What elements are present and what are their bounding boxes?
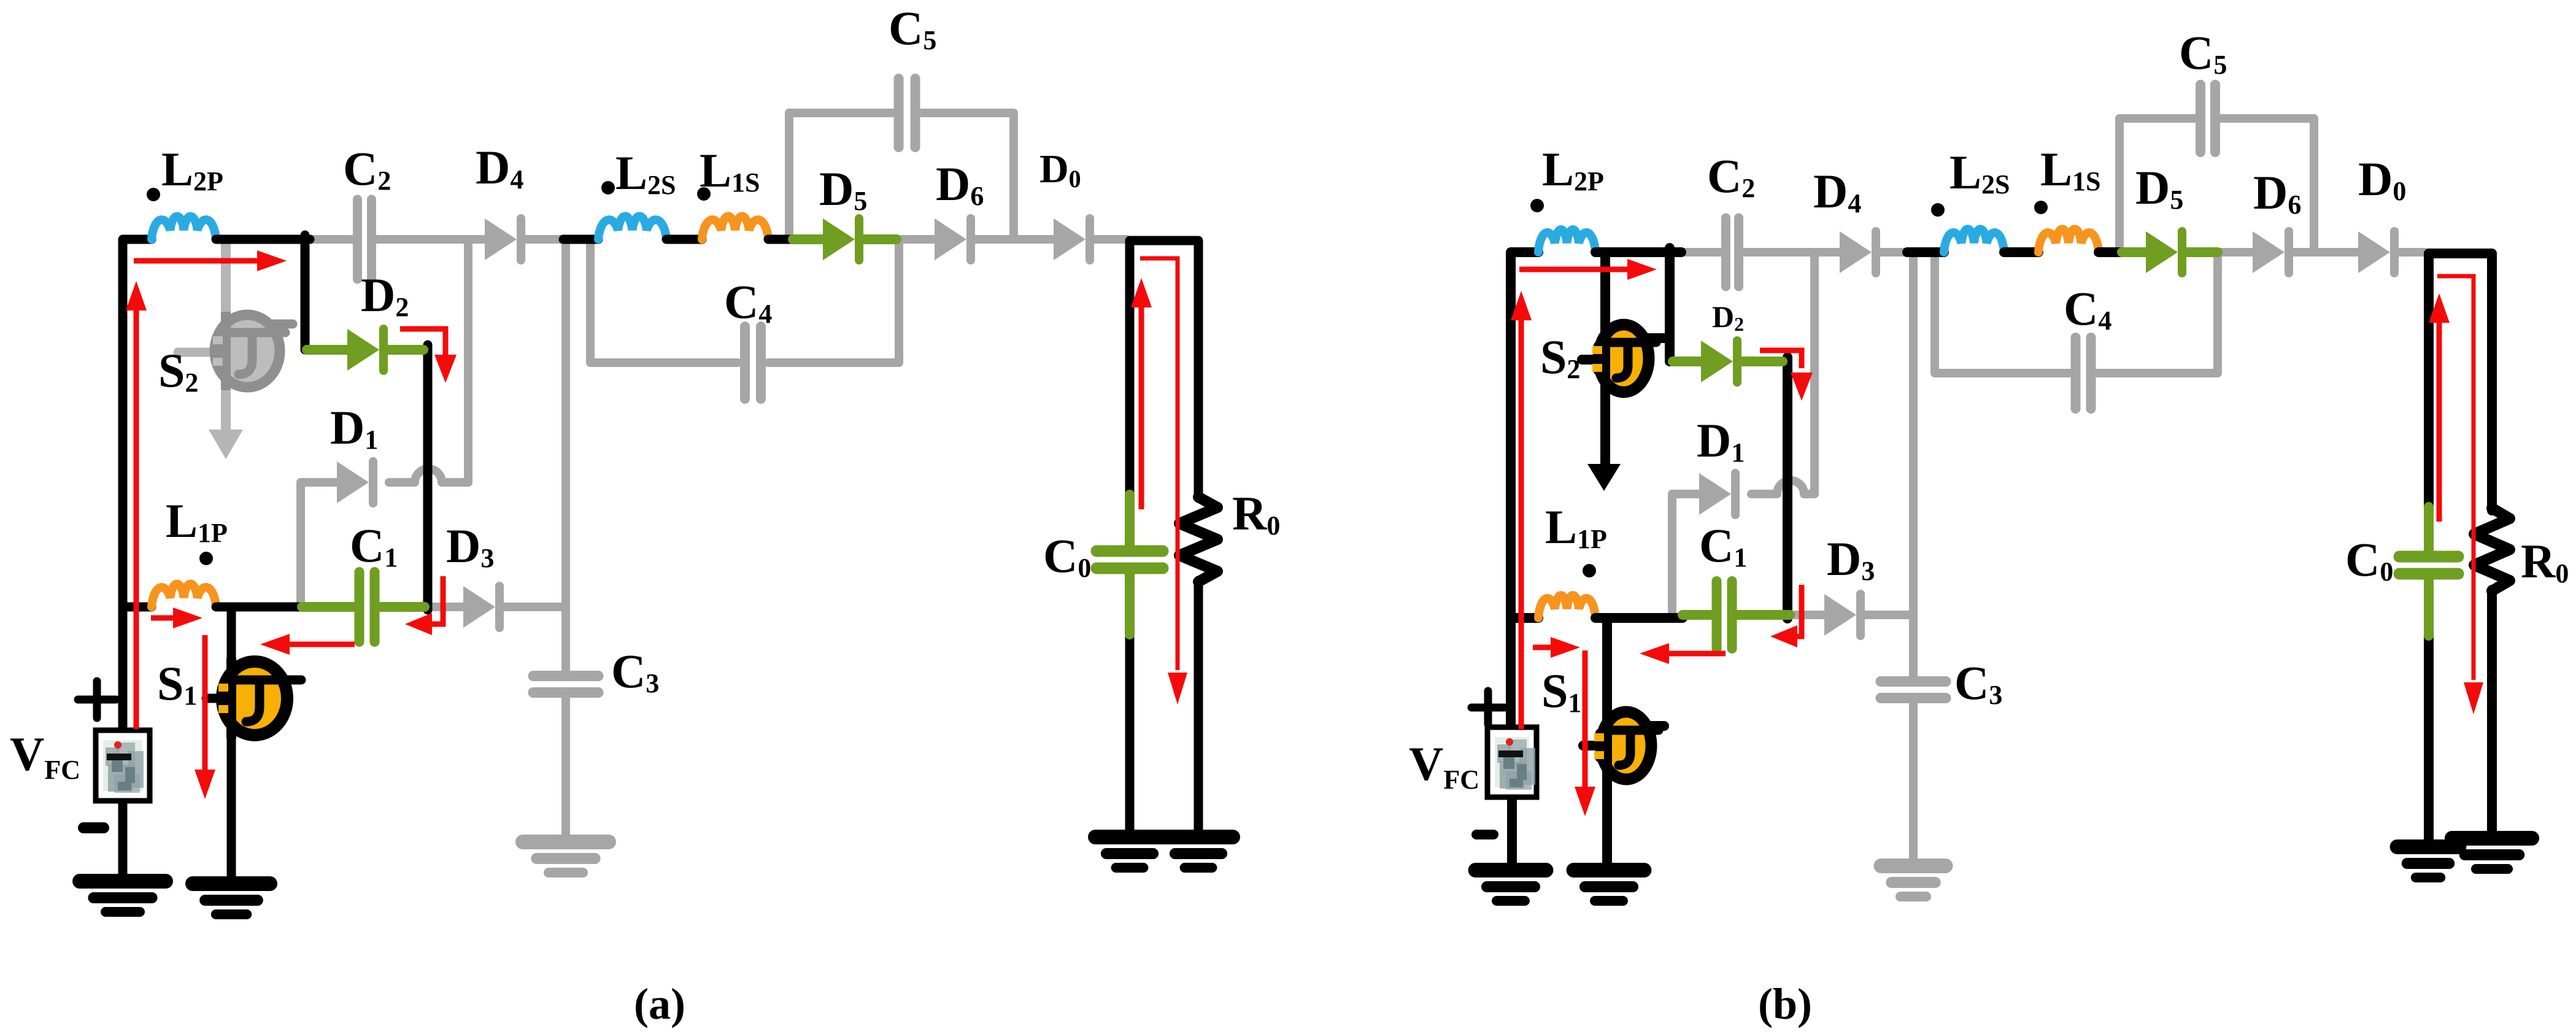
svg-text:L1P: L1P <box>1545 500 1607 554</box>
wire output top bar (b) <box>2429 253 2492 511</box>
diode D3 (b) <box>1824 594 1861 636</box>
wire second row stub (b) <box>1511 613 1538 623</box>
wire bus gray D5-D6 (a) <box>897 235 935 244</box>
inductor L1P (a) <box>152 584 216 607</box>
svg-text:(a): (a) <box>634 979 685 1028</box>
wire C4 loop right (b) <box>2097 256 2218 373</box>
capacitor C4 (b) <box>2076 338 2091 409</box>
wire VFC bottom (a) <box>118 801 128 875</box>
ground C3 (a) <box>523 842 609 873</box>
inductor L2S (a) <box>598 216 666 239</box>
wire C1 row green left (a) <box>302 602 356 612</box>
node dot L2P (a) <box>147 188 160 201</box>
wire D2 cathode green (a) <box>388 345 423 355</box>
diode D2 (a) <box>347 329 384 371</box>
capacitor C1 (a) <box>360 572 375 642</box>
svg-text:C0: C0 <box>2345 533 2393 587</box>
wire D5 cathode green (a) <box>863 234 897 244</box>
svg-text:C3: C3 <box>1954 656 2002 710</box>
wire below C0 (a) <box>1125 632 1135 835</box>
ground VFC (a) <box>80 881 166 912</box>
svg-text:L2S: L2S <box>1949 145 2010 199</box>
capacitor C0 (a) <box>1097 551 1163 568</box>
svg-text:D4: D4 <box>1813 164 1861 218</box>
svg-text:C0: C0 <box>1043 529 1091 583</box>
svg-text:S1: S1 <box>1541 664 1581 718</box>
wire bus black dash D4-L2S (b) <box>1907 247 1944 257</box>
svg-text:L2P: L2P <box>161 142 223 196</box>
minus sign VFC (a) <box>83 822 104 833</box>
wire C5 loop left (a) <box>789 113 892 239</box>
ground output R0 (a) <box>1164 837 1233 868</box>
wire D2 anode green (a) <box>307 345 347 355</box>
wire S2a gate lead (gray) <box>178 348 216 357</box>
wire C1 row green left (b) <box>1683 610 1714 620</box>
wire left vertical (b) <box>1511 252 1538 729</box>
node dot L1P (b) <box>1583 564 1596 577</box>
svg-text:C4: C4 <box>724 275 772 329</box>
resistor R0 (a) <box>1179 497 1217 582</box>
wire C5 loop left (b) <box>2119 118 2195 249</box>
wire D2 cathode vertical (b) <box>1783 357 1792 619</box>
wire C3 branch upper (b) <box>1909 252 1918 676</box>
svg-text:D4: D4 <box>476 141 523 195</box>
wire D2 cathode green (b) <box>1739 357 1783 366</box>
wire bus-to-D2 vertical (a) <box>301 235 310 350</box>
current arrow top bus (a) <box>134 250 287 271</box>
diode D5 (a) <box>823 218 859 260</box>
svg-text:VFC: VFC <box>10 727 80 785</box>
S2a source arrowhead (gray) <box>209 430 243 459</box>
wire bus gray D0-output (a) <box>1094 235 1127 244</box>
current arrow D3 corner (a) <box>405 576 443 635</box>
plus sign VFC (a) <box>78 681 116 718</box>
wire C0 stub bottom (b) <box>2424 579 2434 636</box>
wire bus gray C2 left (a) <box>307 235 355 244</box>
wire C0 stub top (a) <box>1125 495 1135 546</box>
minus sign VFC (b) <box>1476 830 1494 839</box>
svg-text:L1S: L1S <box>2040 142 2101 196</box>
wire C5 loop right (a) <box>922 113 1014 239</box>
wire VFC bottom (b) <box>1507 797 1517 864</box>
wire bus gray C2-D4 (a) <box>374 235 485 244</box>
current loop output (a) <box>1140 258 1187 704</box>
ground S1 (a) <box>193 884 270 914</box>
current arrow C1 left (a) <box>260 634 355 655</box>
svg-text:R0: R0 <box>2521 534 2569 588</box>
wire S1a gate lead <box>206 694 218 703</box>
diode D6 (b) <box>2253 231 2289 273</box>
wire D1 anode to corner (a) <box>301 482 337 603</box>
wire bus gray C2-D4 (b) <box>1743 248 1840 257</box>
wire bus gray D5-D6 (b) <box>2218 248 2253 257</box>
inductor L2S (b) <box>1944 229 2004 252</box>
current arrow S1 down (a) <box>195 635 215 799</box>
diode D4 (b) <box>1840 231 1876 273</box>
capacitor C5 (b) <box>2200 85 2215 152</box>
current arrow output up (b) <box>2429 293 2450 522</box>
svg-text:C4: C4 <box>2064 282 2111 336</box>
wire bus gray D4-L2S (a) <box>525 235 563 244</box>
wire C0 stub top (b) <box>2424 507 2434 551</box>
svg-text:C2: C2 <box>343 142 391 196</box>
svg-text:C5: C5 <box>2179 26 2227 80</box>
ground S1 (b) <box>1574 870 1645 901</box>
ground output C0 (a) <box>1095 837 1164 868</box>
current arrow D2 corner (a) <box>400 329 457 383</box>
ground output R0 (b) <box>2452 838 2532 869</box>
source VFC box (a) <box>96 730 150 801</box>
svg-text:D1: D1 <box>1697 414 1745 468</box>
wire left vertical (a) <box>123 239 152 730</box>
svg-text:C3: C3 <box>611 644 659 698</box>
capacitor C4 (a) <box>745 326 761 399</box>
diode D6 (a) <box>935 218 971 260</box>
node dot L1P (a) <box>199 552 213 565</box>
svg-text:L2S: L2S <box>615 146 676 200</box>
capacitor C3 (b) <box>1881 682 1946 698</box>
svg-text:D2: D2 <box>361 268 409 322</box>
S2b source arrowhead <box>1587 464 1621 491</box>
wire C0 stub bottom (a) <box>1125 573 1135 635</box>
wire second row to C1 (a) <box>216 603 302 612</box>
current loop output (b) <box>2437 276 2483 714</box>
wire D2 cathode vertical (a) <box>423 345 433 610</box>
transistor S1 (b, on) <box>1594 708 1659 783</box>
inductor L1P (b) <box>1538 595 1595 618</box>
wire S1a through line <box>227 611 236 875</box>
wire bus black dash D4-L2S (a) <box>563 235 598 244</box>
wire bus black dash L2S-L1S (a) <box>666 235 702 244</box>
current arrow D2 corner (b) <box>1760 350 1813 401</box>
ground output C0 (b) <box>2397 847 2459 878</box>
diode D0 (a) <box>1054 218 1090 260</box>
svg-text:L1S: L1S <box>700 144 760 198</box>
diode D1 (a) <box>337 461 373 503</box>
ground VFC (b) <box>1476 870 1546 901</box>
inductor L2P (a) <box>152 217 216 239</box>
svg-text:C5: C5 <box>889 1 936 55</box>
wire top bus black (a) <box>216 235 310 244</box>
wire S1b top stub <box>1637 721 1664 731</box>
wire output top bar (a) <box>1130 241 1198 498</box>
ground C3 (b) <box>1881 866 1946 897</box>
current arrow L1P (a) <box>151 608 202 628</box>
svg-text:S2: S2 <box>1540 330 1580 384</box>
wire S2a source (gray) <box>221 393 231 432</box>
current arrow L1P (b) <box>1533 637 1580 658</box>
svg-text:D0: D0 <box>2358 152 2406 206</box>
wire bus gray D6-D0 (b) <box>2293 248 2358 257</box>
svg-text:S1: S1 <box>157 657 197 711</box>
wire C3 branch lower (b) <box>1909 703 1918 866</box>
capacitor C2 (a) <box>358 199 372 279</box>
diode D2 (b) <box>1701 341 1737 382</box>
node dot L2S (a) <box>601 181 615 195</box>
wire bus black dash L1S-D5 (a) <box>768 235 793 244</box>
wire S2b gate lead <box>1582 355 1594 365</box>
wire D2 anode green (b) <box>1673 357 1701 366</box>
wire bus black dash L2S-L1S (b) <box>2004 247 2038 257</box>
current arrow S1 down (b) <box>1575 650 1595 816</box>
current arrow left up (a) <box>126 281 147 729</box>
wire D5 cathode green (b) <box>2186 247 2218 257</box>
svg-text:D5: D5 <box>2135 161 2183 215</box>
wire D1 row with hop (a) <box>389 469 468 482</box>
transistor S1 (a, on) <box>218 658 293 739</box>
current arrow D3 corner (b) <box>1770 585 1802 647</box>
svg-text:(b): (b) <box>1758 979 1812 1028</box>
svg-text:D2: D2 <box>1712 299 1744 335</box>
wire C4 loop right (a) <box>768 243 899 363</box>
wire S2a top stub (gray) <box>250 320 293 329</box>
wire C1 row green right (a) <box>378 602 425 612</box>
current arrow C1 left (b) <box>1640 643 1726 664</box>
svg-text:D6: D6 <box>2253 166 2301 220</box>
wire second row stub (a) <box>123 603 152 612</box>
node dot L1S (a) <box>697 187 711 201</box>
wire top bus black (b) <box>1595 247 1681 257</box>
svg-text:C1: C1 <box>1699 519 1747 573</box>
capacitor C5 (a) <box>899 79 916 147</box>
current arrow left up (b) <box>1511 291 1532 729</box>
wire S1b through line <box>1602 622 1612 864</box>
wire D1 row with hop (b) <box>1751 480 1814 494</box>
diode D5 (b) <box>2146 231 2182 273</box>
wire D1 branch vertical (a) <box>464 239 472 482</box>
wire bus gray D0-output (b) <box>2399 248 2425 257</box>
svg-text:R0: R0 <box>1232 487 1280 541</box>
svg-text:C1: C1 <box>350 519 398 573</box>
wire C3 branch lower (a) <box>561 696 570 842</box>
wire second row to C1 (b) <box>1595 613 1683 623</box>
node dot L2S (b) <box>1931 203 1945 217</box>
svg-text:D6: D6 <box>936 157 984 211</box>
transistor S2 (b, on) <box>1592 322 1656 395</box>
wire bus-to-D2 vertical (b) <box>1665 248 1675 361</box>
wire D1 anode to corner (b) <box>1672 494 1699 612</box>
node dot L2P (b) <box>1530 199 1544 212</box>
capacitor C1 (b) <box>1717 581 1732 649</box>
wire C4 loop left (b) <box>1935 256 2069 373</box>
wire S1b gate lead <box>1583 741 1595 750</box>
wire C4 loop left (a) <box>590 243 738 363</box>
plus sign VFC (b) <box>1471 691 1505 724</box>
wire bus gray D4-L2S (b) <box>1879 248 1907 257</box>
resistor R0 (b) <box>2474 508 2510 591</box>
svg-text:D5: D5 <box>819 162 867 216</box>
wire below R0 (a) <box>1194 581 1203 835</box>
capacitor C2 (b) <box>1726 218 1739 287</box>
inductor L1S (b) <box>2038 229 2099 252</box>
wire S1a top stub <box>270 676 301 685</box>
wire bus gray C2 left (b) <box>1681 248 1722 257</box>
diode D4 (a) <box>485 218 521 260</box>
svg-text:C2: C2 <box>1707 149 1755 203</box>
wire D5 anode green (a) <box>793 234 823 244</box>
wire S2a drain (gray) <box>221 241 231 311</box>
wire C5 loop right (b) <box>2221 118 2314 249</box>
wire D5 anode green (b) <box>2122 247 2146 257</box>
diode D1 (b) <box>1699 473 1735 515</box>
transistor S2 (a, off) <box>213 312 285 390</box>
inductor L1S (a) <box>702 216 768 239</box>
wire bus gray D6-D0 (a) <box>975 235 1054 244</box>
wire D3 row (b) <box>1795 611 1913 619</box>
wire C1 row green right (b) <box>1734 610 1790 620</box>
diode D3 (a) <box>463 586 499 628</box>
wire S2b drain <box>1600 252 1610 322</box>
svg-text:D0: D0 <box>1039 147 1081 193</box>
wire C3 branch upper (a) <box>561 239 570 673</box>
source VFC box (b) <box>1487 727 1537 797</box>
wire S2b source <box>1600 394 1610 468</box>
svg-text:L2P: L2P <box>1542 142 1604 196</box>
wire D1 branch vertical (b) <box>1810 252 1819 494</box>
svg-text:L1P: L1P <box>166 494 228 548</box>
capacitor C0 (b) <box>2399 557 2458 574</box>
node dot L1S (b) <box>2034 201 2048 214</box>
inductor L2P (b) <box>1538 230 1595 252</box>
svg-text:VFC: VFC <box>1409 737 1479 795</box>
diode D0 (b) <box>2358 231 2394 273</box>
svg-text:D1: D1 <box>330 401 378 455</box>
wire S2b top stub <box>1625 333 1665 343</box>
current arrow output up (a) <box>1131 278 1152 509</box>
wire bus black dash L1S-D5 (b) <box>2099 247 2122 257</box>
capacitor C3 (a) <box>533 676 598 693</box>
svg-text:D3: D3 <box>446 519 494 573</box>
wire D3 row (a) <box>433 603 566 611</box>
current arrow top bus (b) <box>1519 259 1657 280</box>
wire below C0 (b) <box>2424 634 2434 844</box>
wire below R0 (b) <box>2487 590 2497 835</box>
svg-text:D3: D3 <box>1827 532 1875 586</box>
